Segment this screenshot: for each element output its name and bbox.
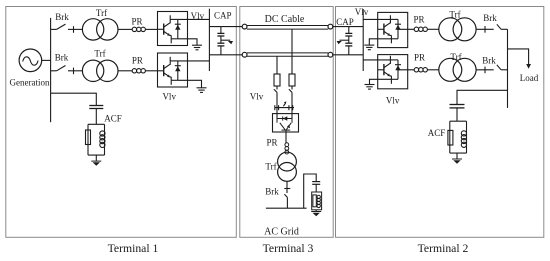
label Vlv (T2 upper) — [355, 7, 369, 17]
wire T2 positive rail — [333, 26, 363, 28]
wire T2 lower valve to PR — [398, 69, 414, 71]
breaker T3 left leg — [274, 86, 277, 108]
label Brk (T2 top) — [483, 13, 497, 23]
svg-text:Trf: Trf — [265, 162, 276, 172]
svg-text:CAP: CAP — [336, 17, 354, 27]
chopper link bar with snubber caps (T3) — [275, 101, 295, 110]
transformer Trf T2 top — [439, 18, 476, 41]
wire T2 lower valve top output to DC bus — [363, 59, 390, 61]
ground (T1 lower valve) — [197, 88, 207, 93]
wire T3 left leg from negative cable — [276, 56, 278, 74]
ground (T1 ACF) — [91, 161, 101, 166]
wire generator to bus — [42, 59, 51, 61]
wire T1 lower valve to ground — [178, 80, 202, 87]
label ACF (T1) — [104, 113, 122, 123]
ground (T2 ACF) — [452, 159, 462, 164]
IGBT U1 (T1 upper valve) — [158, 15, 181, 43]
label PR (T2 bottom) — [414, 53, 425, 63]
svg-text:ACF: ACF — [104, 113, 122, 123]
label ACF (T2) — [428, 128, 446, 138]
svg-text:Terminal 3: Terminal 3 — [263, 242, 314, 255]
wire T2 upper valve top output to DC bus — [363, 18, 390, 20]
valve box (T3) — [273, 114, 299, 132]
svg-text:CAP: CAP — [214, 11, 232, 21]
IGBT U3 (T2 upper valve) — [378, 15, 401, 43]
label Brk (T3) — [265, 187, 279, 197]
label DC Cable — [265, 14, 305, 25]
label Terminal 3 — [263, 242, 314, 255]
capacitor (T3 arrester) — [312, 182, 320, 192]
wire DC cable positive pair — [247, 26, 328, 30]
svg-text:Brk: Brk — [55, 12, 69, 22]
diode D1 (T3 valve freewheel) — [277, 116, 292, 120]
transformer Trf T2 bottom — [439, 58, 476, 81]
resistor R2 (T3 right leg) — [289, 74, 295, 86]
svg-text:DC Cable: DC Cable — [265, 14, 305, 25]
filter RL block (T3 arrester) — [312, 192, 322, 211]
label Trf (T1 bottom) — [94, 48, 105, 58]
IGBT U4 (T2 lower valve) — [378, 56, 401, 84]
breaker Brk (T3) — [284, 181, 290, 208]
wire T2 negative rail — [333, 54, 363, 56]
label Brk (T1 top) — [55, 12, 69, 22]
ground (T2 lower valve) — [365, 85, 375, 90]
wire load branch with arrow — [508, 49, 532, 69]
wire DC cable negative pair — [247, 53, 328, 56]
label AC Grid — [264, 226, 299, 237]
svg-text:Vlv: Vlv — [162, 92, 176, 102]
inductor PR T1 bottom — [132, 69, 157, 73]
breaker Brk T1 bottom — [51, 66, 83, 75]
svg-text:Brk: Brk — [55, 52, 69, 62]
Terminal 2 enclosure box — [336, 7, 544, 238]
filter ACF parallel RL block (T2) — [448, 121, 467, 159]
node T1 DC bus — [208, 9, 210, 71]
ground (T1 upper valve) — [192, 45, 202, 50]
svg-text:Trf: Trf — [94, 48, 105, 58]
label PR (T1 top) — [131, 17, 142, 27]
label Vlv (T1 lower) — [162, 92, 176, 102]
node generation bus — [50, 18, 52, 122]
capacitor C2 (T1 DC link lower) — [217, 43, 224, 55]
capacitor C4 (T2 DC link lower) — [345, 43, 352, 55]
capacitor ACF series cap (T1) — [89, 106, 103, 125]
svg-text:Terminal 1: Terminal 1 — [108, 242, 159, 255]
valve box Vlv T2 upper — [378, 12, 408, 47]
svg-text:PR: PR — [132, 55, 143, 65]
breaker Brk T2 top — [476, 24, 507, 32]
label Vlv (T3) — [250, 92, 264, 102]
cable terminal node (top left) — [242, 24, 247, 29]
breaker Brk T2 bottom — [476, 65, 507, 73]
IGBT Q1 (T3 valve) — [277, 119, 292, 131]
label Trf (T3) — [265, 162, 276, 172]
wire T3 valve output — [285, 130, 287, 143]
label Vlv (T2 lower) — [386, 95, 400, 105]
wire Trf to PR (T1 top) — [118, 28, 132, 30]
transformer Trf T1 top — [82, 19, 118, 40]
svg-text:AC Grid: AC Grid — [264, 226, 299, 237]
wire Trf to PR (T1 bottom) — [118, 70, 132, 72]
wire T2 lower valve to ground — [370, 79, 392, 84]
svg-text:PR: PR — [413, 15, 424, 25]
node T2 DC bus — [362, 9, 364, 71]
svg-text:Vlv: Vlv — [386, 95, 400, 105]
wire ACF tap (T1) — [51, 93, 97, 105]
wire T1 negative rail — [209, 54, 242, 56]
transformer Trf T1 bottom — [82, 60, 118, 81]
valve box Vlv T1 upper — [158, 12, 188, 46]
label CAP (T2) — [336, 17, 354, 27]
wire ACF tap (T2) — [457, 90, 508, 104]
label Trf (T2 top) — [449, 9, 460, 19]
generator G (AC source) — [19, 49, 42, 72]
svg-text:Brk: Brk — [265, 187, 279, 197]
cable terminal node (bottom left) — [242, 52, 247, 57]
svg-text:Generation: Generation — [10, 77, 50, 87]
inductor PR T2 bottom — [414, 68, 439, 72]
ground (T3 arrester) — [311, 212, 321, 217]
svg-text:Vlv: Vlv — [355, 7, 369, 17]
svg-text:PR: PR — [266, 137, 277, 147]
capacitor C1 (T1 DC link upper) — [217, 27, 224, 43]
ground reference arrow (T2 DC midpoint) — [337, 40, 349, 44]
inductor PR T2 top — [414, 27, 439, 31]
svg-text:Brk: Brk — [482, 56, 496, 66]
label PR (T3) — [266, 137, 277, 147]
breaker Brk T1 top — [51, 24, 83, 33]
label Vlv (T1 upper) — [191, 11, 205, 21]
label Brk (T1 bottom) — [55, 52, 69, 62]
transformer Trf (T3) — [278, 152, 297, 181]
label Trf (T2 bottom) — [450, 52, 461, 62]
capacitor C3 (T2 DC link upper) — [345, 27, 352, 43]
wire T2 upper valve to PR — [398, 28, 414, 30]
wire T1 upper valve top output to DC bus — [178, 18, 210, 20]
svg-text:Trf: Trf — [96, 8, 107, 18]
label Trf (T1 top) — [96, 8, 107, 18]
svg-text:PR: PR — [414, 53, 425, 63]
ground reference arrow (T1 DC midpoint) — [221, 40, 233, 44]
filter ACF parallel RL block (T1) — [86, 124, 106, 161]
svg-text:Vlv: Vlv — [191, 11, 205, 21]
wire T2 upper valve to ground — [369, 39, 391, 45]
cable terminal node (top right) — [328, 24, 333, 29]
svg-text:Load: Load — [520, 73, 539, 83]
capacitor ACF series cap (T2) — [450, 105, 465, 122]
inductor PR T1 top — [132, 27, 157, 31]
wire AC grid bus (T3) — [266, 207, 307, 209]
cable terminal node (bottom right) — [328, 52, 333, 57]
resistor R1 (T3 left leg) — [274, 74, 280, 86]
svg-text:PR: PR — [131, 17, 142, 27]
wire T1 positive rail — [209, 26, 242, 28]
label Generation — [10, 77, 50, 87]
Terminal 1 enclosure box — [6, 7, 237, 238]
inductor PR (T3) — [285, 143, 289, 154]
label Terminal 2 — [418, 242, 469, 255]
svg-text:ACF: ACF — [428, 128, 446, 138]
IGBT U2 (T1 lower valve) — [158, 57, 181, 85]
svg-text:Brk: Brk — [483, 13, 497, 23]
label CAP (T1) — [214, 11, 232, 21]
wire T3 right leg from positive cable — [291, 29, 293, 74]
breaker T3 right leg — [289, 86, 292, 108]
ground (T2 upper valve) — [364, 45, 374, 50]
svg-text:Trf: Trf — [450, 52, 461, 62]
label Load — [520, 73, 539, 83]
label PR (T1 bottom) — [132, 55, 143, 65]
svg-text:Vlv: Vlv — [250, 92, 264, 102]
wire T1 upper valve to ground — [178, 39, 197, 45]
wire arrester branch riser (T3) — [304, 174, 317, 208]
valve box Vlv T2 lower — [378, 55, 408, 89]
label Terminal 1 — [108, 242, 159, 255]
svg-text:Terminal 2: Terminal 2 — [418, 242, 469, 255]
label Brk (T2 bottom) — [482, 56, 496, 66]
wire legs into T3 valve box — [277, 108, 292, 119]
node T2 load bus — [507, 29, 509, 108]
Terminal 3 enclosure box — [240, 7, 333, 238]
wire T1 lower valve top output to DC bus — [178, 60, 210, 62]
label PR (T2 top) — [413, 15, 424, 25]
valve box Vlv T1 lower — [158, 53, 188, 87]
